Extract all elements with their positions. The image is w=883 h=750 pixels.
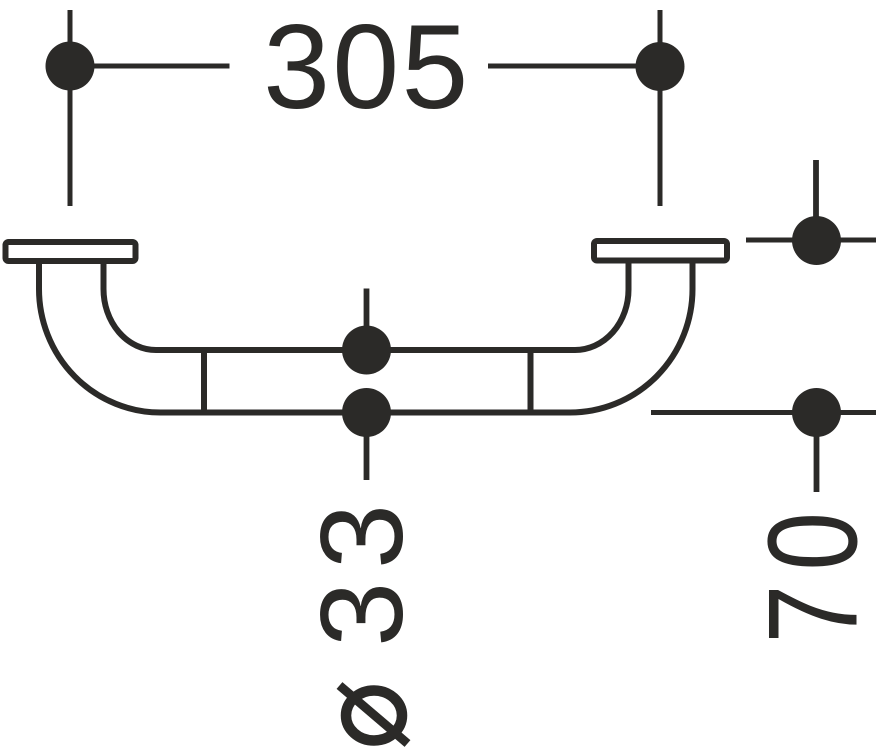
svg-text:305: 305 bbox=[263, 0, 468, 134]
